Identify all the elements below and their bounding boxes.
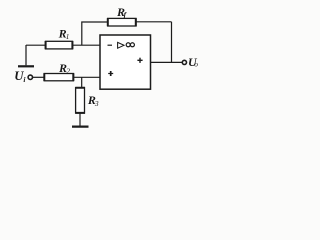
wire op-amp output to Uo terminal	[151, 61, 183, 63]
op-amp output plus sign	[137, 58, 142, 63]
ground (below R3)	[72, 125, 89, 127]
op-amp inverting input minus sign	[108, 44, 113, 46]
input terminal Ui	[28, 75, 32, 79]
svg-text:o: o	[194, 60, 198, 69]
svg-text:3: 3	[94, 99, 99, 108]
wire feedback riser up from R1 node	[82, 22, 108, 45]
op-amp gain triangle	[118, 42, 124, 48]
resistor R2	[44, 74, 73, 81]
op-amp U1 body	[100, 35, 151, 89]
svg-text:1: 1	[66, 32, 70, 41]
wire ground to R1	[26, 44, 46, 46]
wire Ui terminal to R2	[33, 76, 45, 78]
output terminal Uo	[182, 60, 186, 64]
resistor R3	[76, 88, 85, 113]
wire R3 to ground	[79, 113, 81, 126]
op-amp non-inverting input plus sign	[108, 71, 113, 76]
svg-text:2: 2	[66, 66, 70, 75]
ground (left, at R1 input)	[18, 45, 34, 66]
wire R2 to op-amp non-inverting input	[74, 76, 101, 78]
resistor R1	[46, 41, 73, 49]
wire riser down to output node	[171, 22, 173, 63]
wire Rf to output riser	[136, 21, 172, 23]
op-amp infinity symbol	[126, 43, 134, 47]
wire riser down to R3	[81, 77, 83, 87]
wire R1 to op-amp inverting input	[73, 44, 101, 46]
resistor Rf	[108, 18, 136, 26]
